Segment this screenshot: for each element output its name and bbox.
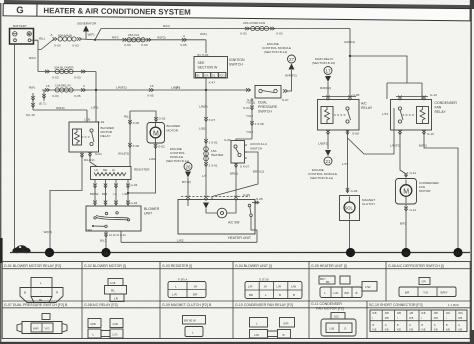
wire relay outputs	[50, 152, 102, 249]
ground point clutch	[346, 248, 355, 257]
pinout G-08 connector	[88, 319, 123, 339]
page top dark bar	[4, 0, 474, 9]
pinout G-04 connector	[245, 278, 302, 299]
connector E.T. stub	[39, 90, 46, 106]
page right border	[470, 0, 472, 344]
fuse 30A BLOWER	[38, 66, 96, 80]
wire R/F2 drop to fuse rows	[29, 50, 38, 72]
solenoid magnet clutch	[340, 196, 376, 221]
battery	[10, 24, 34, 44]
pinout G-11 connector	[321, 313, 356, 337]
relay K1 blower motor relay	[69, 118, 115, 153]
fuse 80A MAIN	[53, 34, 96, 48]
ground point 17 left	[45, 248, 54, 257]
wire 30A output down to junction	[95, 72, 97, 91]
wire motor to ground	[400, 204, 416, 248]
ground bus wire	[10, 252, 470, 254]
short connector SC-16 branch	[26, 93, 87, 122]
wire G/R(F2) vertical into A/C relay	[344, 29, 355, 97]
relay K3 condenser fan relay	[391, 93, 458, 136]
wire ignition output down	[206, 78, 215, 197]
fuse 20A COND FAN	[240, 21, 283, 35]
pinout SC-15 connector grid	[370, 310, 467, 332]
fuse 15A HEATER vertical	[199, 105, 224, 179]
car body icon	[13, 245, 31, 253]
node blower relay feed junction	[95, 89, 97, 91]
pinout G-06 connector	[399, 278, 456, 297]
wire blower motor to unit	[127, 143, 165, 194]
wire A/C relay to magnet clutch	[342, 130, 358, 193]
motor M blower motor	[118, 111, 181, 167]
motor M condenser fan motor	[396, 179, 440, 205]
wire battery negative to ground bus	[14, 44, 16, 253]
title block	[3, 4, 470, 21]
resistor block RESISTER	[91, 167, 151, 180]
fuse 25A IG2	[123, 32, 207, 47]
node ignition/relay junction	[205, 89, 207, 91]
page left border	[0, 3, 1, 342]
wire battery positive feed	[31, 39, 54, 50]
wire R/F2 top bus	[101, 24, 350, 28]
pinout G-03 connector	[168, 278, 206, 298]
generator	[77, 22, 97, 40]
ecm arrow 27	[262, 42, 297, 91]
wire blower unit grounds	[100, 231, 257, 248]
legend header row 1	[4, 264, 444, 268]
ground point 15	[401, 248, 410, 257]
node branch to condenser fan relay	[349, 55, 351, 57]
ground point 18	[101, 248, 110, 257]
switch A/CON ILLU switch	[231, 139, 267, 169]
wire B/F2 to right ground	[419, 130, 458, 248]
ignition switch	[194, 57, 245, 79]
pinout G-02 connector	[105, 279, 127, 302]
wire branch up to R/F2 bus	[95, 29, 101, 40]
blower unit switch box	[86, 206, 160, 232]
pinout G-05 connector	[319, 276, 377, 298]
ecm arrow 21	[308, 130, 337, 180]
wire A/C switch to heater unit	[212, 152, 264, 200]
fuse 10A RELAY row	[29, 84, 206, 99]
pinout G-07 connector	[17, 314, 67, 334]
main relay reference	[312, 57, 335, 97]
wire clutch to ground	[349, 221, 351, 253]
page bottom border	[0, 342, 474, 344]
wire down into ignition switch	[205, 40, 207, 53]
node main feed junction	[94, 39, 96, 41]
pinout G-10 connector	[250, 318, 295, 339]
ecm arrow 26 to heater unit	[166, 147, 192, 197]
wire L(F2) into blower motor relay	[91, 90, 98, 122]
pinout G-09 connector	[183, 316, 206, 337]
wire branch L/T2 loop	[348, 108, 395, 154]
wire ignition feed row y40	[95, 36, 206, 40]
ground point 17 right	[453, 248, 462, 257]
pinout G-01 cross connector	[20, 278, 63, 303]
connector legend table	[2, 262, 470, 339]
wires resistor to blower unit	[90, 180, 138, 207]
legend header row 2	[4, 302, 459, 310]
relay K2 A/C relay	[318, 93, 373, 136]
wire relay to condenser fan motor	[390, 130, 416, 177]
switch dual pressure switch	[206, 86, 289, 114]
wire condenser relay feed	[350, 56, 422, 99]
wire Y/G column to A/C switch	[224, 98, 264, 142]
heater unit box	[178, 193, 263, 243]
